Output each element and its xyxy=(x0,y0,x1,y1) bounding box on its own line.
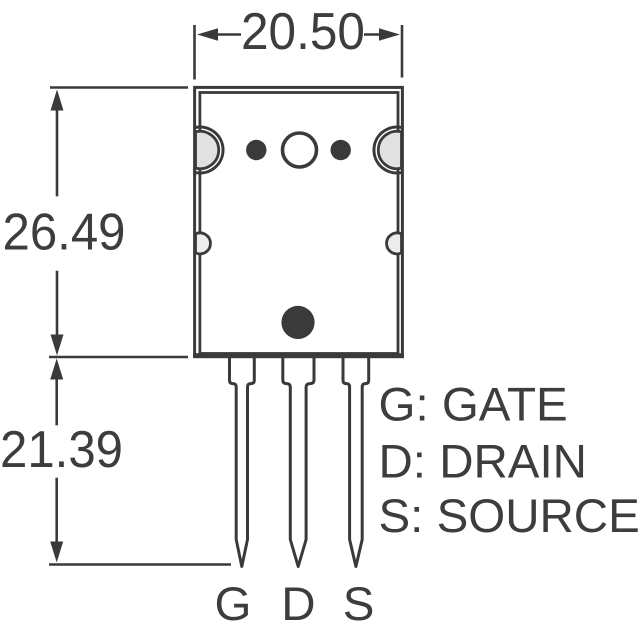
package bottom thick base xyxy=(193,353,404,358)
svg-text:20.50: 20.50 xyxy=(241,3,365,61)
svg-text:26.49: 26.49 xyxy=(3,204,126,262)
svg-text:21.39: 21.39 xyxy=(0,421,123,479)
svg-text:S: S xyxy=(343,578,375,631)
rivet dot right xyxy=(331,140,351,160)
height dimension line upper segment xyxy=(51,90,64,197)
side notch small right xyxy=(387,233,402,254)
extension line top right xyxy=(401,25,404,78)
svg-text:S: SOURCE: S: SOURCE xyxy=(379,490,640,543)
package body inner outline xyxy=(200,93,398,354)
extension line body top xyxy=(50,86,188,89)
width dimension arrow left xyxy=(197,28,241,40)
extension line body bottom xyxy=(49,356,188,359)
lead D (pin 2) xyxy=(283,354,314,567)
width dimension arrow right xyxy=(364,28,400,40)
svg-text:G: G xyxy=(215,578,252,631)
side notch small left xyxy=(196,233,211,254)
lower large dot xyxy=(281,306,314,339)
lead G (pin 1) xyxy=(230,354,255,567)
extension line top left xyxy=(193,25,196,80)
package body outer outline xyxy=(195,87,403,355)
lead dimension line upper segment xyxy=(50,359,63,426)
rivet dot left xyxy=(246,140,266,160)
height dimension line lower segment xyxy=(51,271,64,356)
svg-text:D: D xyxy=(281,578,315,631)
mounting hole ring center xyxy=(283,133,317,167)
extension line lead tip xyxy=(49,563,231,566)
svg-text:G: GATE: G: GATE xyxy=(379,379,568,432)
mounting flange large right xyxy=(374,127,402,173)
lead dimension line lower segment xyxy=(50,478,63,563)
svg-text:D: DRAIN: D: DRAIN xyxy=(379,436,588,489)
mounting flange large left xyxy=(196,127,224,173)
lead S (pin 3) xyxy=(343,354,369,567)
